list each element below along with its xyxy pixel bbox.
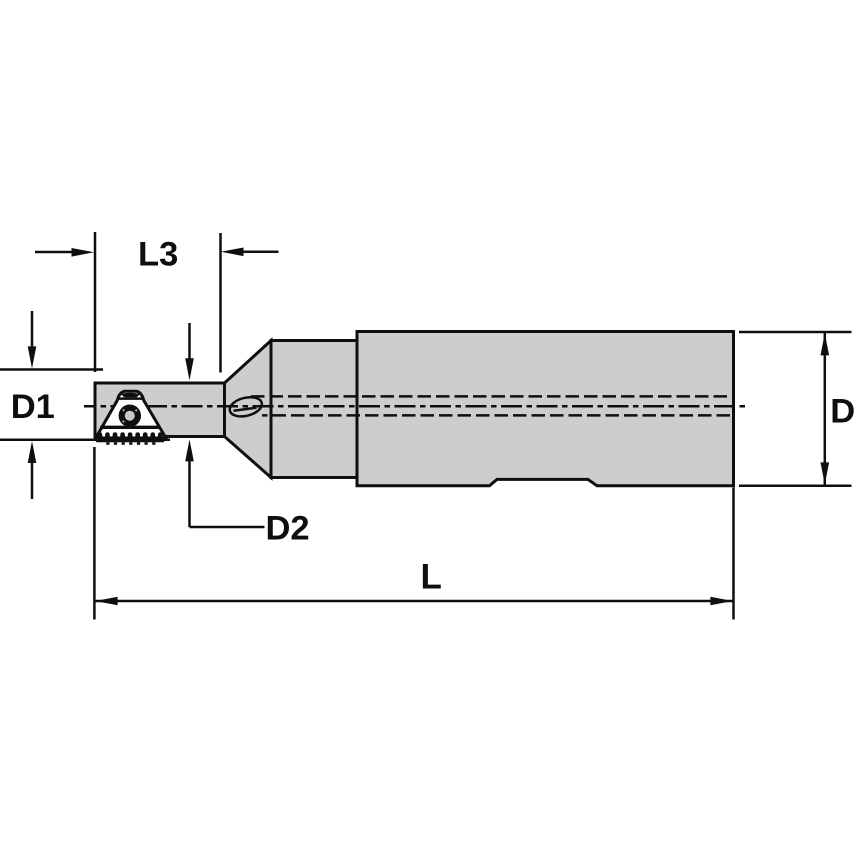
- L dimension line: [96, 600, 733, 603]
- insert base line: [100, 426, 158, 429]
- insert tip trapezoid: [121, 393, 140, 398]
- D dimension line: [824, 333, 827, 485]
- D2 top arrow: [188, 323, 191, 360]
- D1 ext line top: [0, 368, 103, 371]
- serration nubs below: [106, 442, 155, 445]
- neck (small shaft): [95, 383, 225, 437]
- svg-text:D1: D1: [11, 388, 55, 426]
- insert body (white triangle with dome top): [96, 391, 166, 438]
- D ext line bottom: [739, 485, 852, 488]
- D1 top arrow: [31, 311, 34, 350]
- L3 ext line left: [94, 232, 97, 372]
- ellipse chord: [234, 408, 257, 411]
- centerline: [84, 405, 747, 408]
- D ext line top: [739, 331, 852, 334]
- L3 right arrow: [243, 251, 279, 254]
- D2 bottom arrow: [188, 461, 191, 527]
- coolant hole ellipse on cone: [228, 394, 264, 419]
- L ext line left: [93, 447, 96, 620]
- L3 ext line right: [219, 233, 222, 373]
- insert dome chord: [117, 397, 143, 400]
- cone taper: [225, 341, 272, 478]
- mid cylinder: [271, 341, 357, 478]
- svg-text:D: D: [830, 393, 854, 431]
- hidden hole line top: [251, 395, 734, 398]
- D1 bottom arrow: [31, 461, 34, 499]
- big cylinder (shank) with notch: [357, 332, 734, 486]
- svg-text:D2: D2: [266, 509, 310, 547]
- L3 left arrow: [35, 251, 76, 254]
- svg-text:L3: L3: [138, 236, 178, 274]
- serration band with teeth: [96, 432, 164, 442]
- D1 ext line bottom: [0, 438, 170, 441]
- L ext line right: [732, 488, 735, 620]
- svg-text:L: L: [421, 558, 442, 597]
- clamp screw: [119, 405, 141, 427]
- hidden hole line bottom: [262, 414, 734, 417]
- D2 leader: [190, 526, 265, 529]
